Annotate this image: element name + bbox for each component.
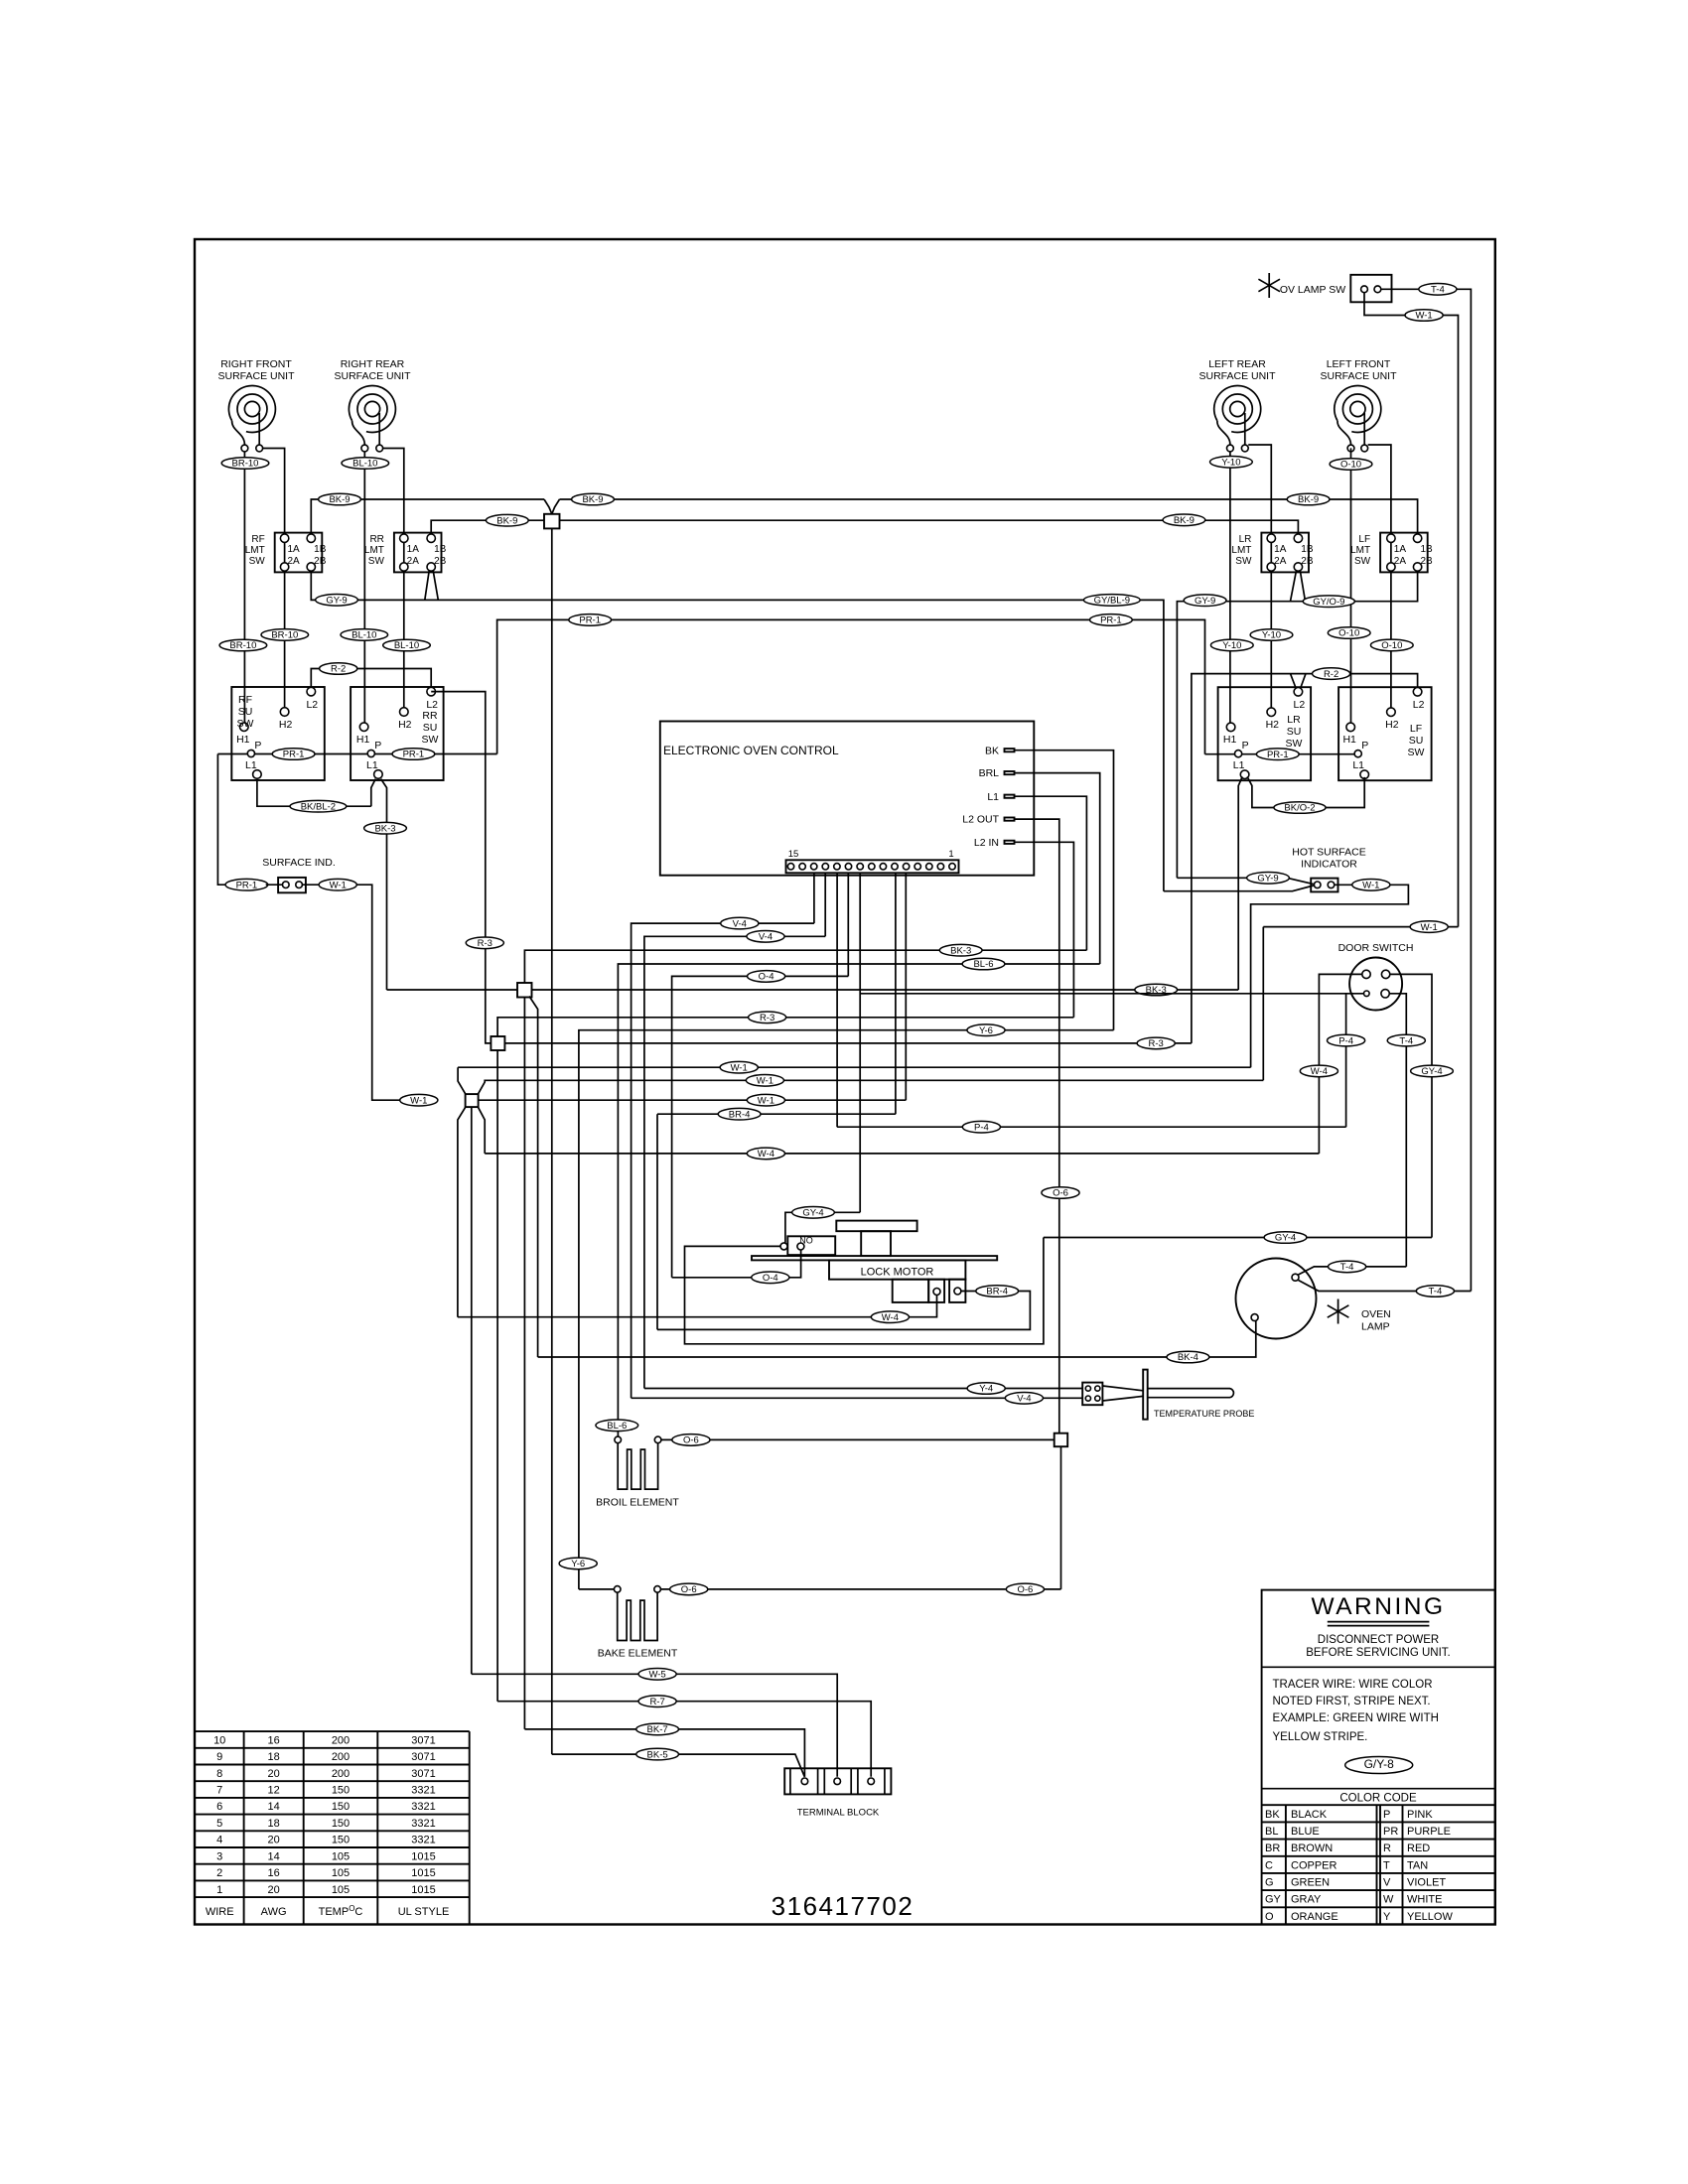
oval label W-1 xyxy=(1410,921,1448,933)
svg-text:TERMINAL BLOCK: TERMINAL BLOCK xyxy=(797,1808,880,1819)
svg-text:3321: 3321 xyxy=(411,1818,435,1830)
wire V-4 line to probe connector xyxy=(632,1397,1083,1399)
wire BR-10 right: RF coil right terminal to RF LMT 1A, 2A down to H2 xyxy=(263,449,285,708)
oven lamp terminal lower xyxy=(1251,1314,1258,1321)
svg-text:2B: 2B xyxy=(434,556,447,567)
svg-text:R-3: R-3 xyxy=(478,938,492,949)
svg-text:LOCK MOTOR: LOCK MOTOR xyxy=(861,1267,934,1279)
svg-text:16: 16 xyxy=(267,1867,279,1879)
svg-text:LMT: LMT xyxy=(1231,545,1251,556)
wire from EOC L2 IN stub to R-3 line xyxy=(1015,842,1074,1018)
EOC 15-pin connector strip xyxy=(786,860,959,873)
svg-text:R-3: R-3 xyxy=(1149,1038,1164,1049)
svg-text:3071: 3071 xyxy=(411,1751,435,1763)
svg-text:LF: LF xyxy=(1410,723,1422,735)
color code table grid xyxy=(1262,1804,1495,1806)
svg-text:BL: BL xyxy=(1265,1826,1278,1838)
oval label BK-9 xyxy=(1163,514,1205,526)
svg-text:RIGHT REAR: RIGHT REAR xyxy=(341,358,405,370)
svg-text:3071: 3071 xyxy=(411,1768,435,1780)
svg-text:Y-6: Y-6 xyxy=(571,1559,585,1570)
svg-text:LMT: LMT xyxy=(245,545,265,556)
EOC terminal stub BRL xyxy=(1005,771,1015,774)
svg-text:SW: SW xyxy=(368,556,385,567)
svg-text:BL-10: BL-10 xyxy=(352,459,377,470)
svg-text:150: 150 xyxy=(332,1818,350,1830)
EOC terminal stub BK xyxy=(1005,749,1015,751)
svg-text:BRL: BRL xyxy=(979,767,1000,779)
RF LMT SW pins 1A 1B 2A 2B xyxy=(280,534,288,542)
oval label BK-3 xyxy=(1135,984,1178,996)
wire P-4 line: pin11 across to door switch drop xyxy=(837,1126,1346,1128)
svg-text:3: 3 xyxy=(216,1850,222,1862)
svg-text:OVEN: OVEN xyxy=(1361,1308,1391,1320)
svg-text:BK-5: BK-5 xyxy=(647,1749,668,1760)
svg-text:H2: H2 xyxy=(1266,719,1280,731)
wire V-4 line 1: pin13 to left drop xyxy=(632,923,814,1398)
svg-text:1B: 1B xyxy=(1301,544,1314,555)
LR LMT SW pins 1A 1B 2A 2B xyxy=(1267,534,1275,542)
oval label BR-4 xyxy=(976,1286,1019,1297)
svg-text:EXAMPLE: GREEN WIRE WITH: EXAMPLE: GREEN WIRE WITH xyxy=(1273,1712,1439,1724)
LR SU SW pin L1 xyxy=(1240,770,1249,779)
lock motor cam stem xyxy=(861,1231,891,1256)
oval label W-1 xyxy=(400,1094,438,1106)
svg-text:BR: BR xyxy=(1265,1843,1280,1854)
wire W-4 door switch UL leg xyxy=(1319,974,1362,1154)
oven lamp terminal upper xyxy=(1292,1274,1299,1281)
wire BK-7: J1 trunk across and down to terminal 1 xyxy=(524,1729,804,1777)
oval label BL-10 xyxy=(341,629,388,641)
LF LMT SW limit switch box xyxy=(1380,533,1428,573)
svg-text:L2 IN: L2 IN xyxy=(974,837,999,849)
temperature probe stem xyxy=(1148,1389,1234,1398)
wire from EOC BRL stub to BL-6 line xyxy=(1015,773,1100,964)
oval label O-6 xyxy=(672,1434,710,1446)
oval label O-6 xyxy=(1006,1583,1044,1595)
svg-text:TEMPERATURE PROBE: TEMPERATURE PROBE xyxy=(1154,1409,1254,1419)
left front surface unit coil element xyxy=(1335,385,1381,445)
svg-text:Y-6: Y-6 xyxy=(979,1025,993,1036)
svg-text:GY-4: GY-4 xyxy=(1421,1066,1442,1077)
svg-text:HOT SURFACE: HOT SURFACE xyxy=(1292,847,1365,859)
oval label BK/O-2 xyxy=(1274,802,1326,814)
LR SU SW pin P xyxy=(1235,751,1242,757)
LF SU SW pin H2 xyxy=(1387,708,1396,717)
svg-text:2B: 2B xyxy=(1301,556,1314,567)
svg-text:GREEN: GREEN xyxy=(1291,1877,1330,1889)
oval label T-4 xyxy=(1419,284,1457,296)
oval label Y-6 xyxy=(967,1024,1005,1036)
EOC terminal stub L1 xyxy=(1005,795,1015,798)
wire V-4 line 2: pin12 to left drop xyxy=(644,936,825,1388)
door switch pin LL xyxy=(1364,991,1370,997)
wire PR-1 drop from P-line to surface indicator xyxy=(217,754,227,886)
lock motor body box xyxy=(829,1260,965,1279)
svg-text:16: 16 xyxy=(267,1734,279,1746)
svg-text:P: P xyxy=(1361,740,1368,751)
svg-text:BK-9: BK-9 xyxy=(1174,515,1195,526)
svg-text:R-2: R-2 xyxy=(331,664,346,675)
svg-text:W: W xyxy=(1383,1894,1394,1906)
wire BK-5 trunk: junction box down to BK-5 run xyxy=(551,528,553,1754)
oval label W-1 xyxy=(720,1061,758,1073)
svg-text:BK/BL-2: BK/BL-2 xyxy=(301,801,336,812)
svg-text:TAN: TAN xyxy=(1407,1859,1428,1871)
svg-text:1015: 1015 xyxy=(411,1850,435,1862)
svg-text:1B: 1B xyxy=(1420,544,1433,555)
oval label PR-1 xyxy=(569,614,612,626)
svg-text:1A: 1A xyxy=(407,544,420,555)
oval label O-10 xyxy=(1330,459,1372,471)
svg-text:P: P xyxy=(1383,1809,1390,1821)
svg-text:1: 1 xyxy=(216,1884,222,1896)
svg-text:L1: L1 xyxy=(1352,759,1364,771)
oval label W-1 xyxy=(747,1094,784,1106)
svg-text:GY-9: GY-9 xyxy=(1195,596,1215,607)
wire drop from connector pin 5 xyxy=(905,873,907,1100)
svg-text:V: V xyxy=(1383,1877,1391,1889)
svg-text:8: 8 xyxy=(216,1768,222,1780)
svg-text:PR-1: PR-1 xyxy=(579,615,601,626)
svg-text:20: 20 xyxy=(267,1768,279,1780)
svg-text:R-2: R-2 xyxy=(1324,669,1338,680)
svg-text:BEFORE SERVICING UNIT.: BEFORE SERVICING UNIT. xyxy=(1306,1647,1450,1659)
oval label BK-3 xyxy=(939,944,982,956)
oval label BR-4 xyxy=(718,1108,761,1120)
lock motor NO switch box xyxy=(787,1236,835,1255)
svg-text:W-1: W-1 xyxy=(410,1095,427,1106)
wire BL-10 right: RR coil right terminal to RR LMT 1A, 2A down to H2 xyxy=(383,449,404,708)
oven lamp switch terminals xyxy=(1361,286,1368,293)
junction square J1 xyxy=(517,983,532,998)
temperature probe taper xyxy=(1102,1386,1143,1401)
svg-text:3321: 3321 xyxy=(411,1835,435,1846)
svg-text:PR: PR xyxy=(1383,1826,1398,1838)
svg-text:G: G xyxy=(1265,1877,1274,1889)
svg-text:W-4: W-4 xyxy=(882,1312,899,1323)
svg-text:BK-7: BK-7 xyxy=(647,1724,668,1735)
svg-text:T-4: T-4 xyxy=(1399,1035,1413,1046)
svg-text:BR-4: BR-4 xyxy=(729,1109,751,1120)
svg-text:O-10: O-10 xyxy=(1338,628,1359,639)
svg-text:1B: 1B xyxy=(314,544,327,555)
svg-text:WARNING: WARNING xyxy=(1312,1593,1446,1620)
svg-text:LEFT REAR: LEFT REAR xyxy=(1208,358,1266,370)
svg-text:15: 15 xyxy=(788,849,799,860)
RF SU SW pin P xyxy=(247,750,254,756)
svg-text:1015: 1015 xyxy=(411,1884,435,1896)
page border frame xyxy=(195,239,1495,1925)
svg-text:DISCONNECT POWER: DISCONNECT POWER xyxy=(1318,1634,1439,1646)
svg-text:O-10: O-10 xyxy=(1381,640,1402,651)
wire T-4 from lamp switch to right edge xyxy=(1381,289,1472,1291)
LR SU SW pin L2 xyxy=(1294,688,1303,697)
wire Y-10 left: LR coil left terminal down to LR SU SW H1 xyxy=(1229,452,1231,723)
LR LMT SW limit switch box xyxy=(1261,533,1309,573)
svg-text:ORANGE: ORANGE xyxy=(1291,1911,1338,1923)
svg-text:PURPLE: PURPLE xyxy=(1407,1826,1451,1838)
svg-text:3321: 3321 xyxy=(411,1785,435,1797)
LF SU SW pin L2 xyxy=(1413,688,1422,697)
wire R-3 vertical: RR SU L2 right and down through R-3 oval to J2 left xyxy=(431,692,491,1043)
oval label GY/O-9 xyxy=(1303,596,1354,608)
oval label W-1 xyxy=(1352,880,1390,891)
svg-text:WHITE: WHITE xyxy=(1407,1894,1442,1906)
svg-text:YELLOW: YELLOW xyxy=(1407,1911,1453,1923)
wire BR-4 lock motor return xyxy=(657,1292,1030,1330)
svg-text:VIOLET: VIOLET xyxy=(1407,1877,1446,1889)
svg-text:W-1: W-1 xyxy=(758,1095,774,1106)
svg-text:1: 1 xyxy=(948,849,953,860)
oval label R-3 xyxy=(1137,1037,1175,1049)
svg-text:SU: SU xyxy=(423,722,438,734)
svg-text:2B: 2B xyxy=(314,556,327,567)
svg-text:SW: SW xyxy=(1354,556,1371,567)
wire GY-4 bottom run to door-switch UR drop xyxy=(1044,1237,1432,1239)
LF SU SW surface switch box xyxy=(1338,687,1432,780)
oval label PR-1 xyxy=(272,749,315,760)
RR SU SW pin H2 xyxy=(400,708,409,717)
RR SU SW pin L2 xyxy=(427,687,436,696)
wire O-6 trunk below junction xyxy=(1060,1446,1062,1589)
svg-text:YELLOW STRIPE.: YELLOW STRIPE. xyxy=(1273,1731,1368,1743)
svg-text:LF: LF xyxy=(1358,534,1370,545)
oval label O-4 xyxy=(748,971,785,983)
broil element heating coil xyxy=(618,1443,657,1489)
svg-text:BL-6: BL-6 xyxy=(607,1421,627,1432)
oval label V-4 xyxy=(1005,1393,1043,1405)
svg-text:SU: SU xyxy=(1287,726,1302,738)
svg-text:2A: 2A xyxy=(1394,556,1407,567)
left rear surface unit coil element xyxy=(1214,385,1261,445)
wire T-4 upper: lamp terminal diagonal to door-switch T-4 drop xyxy=(1298,1267,1406,1275)
svg-text:T-4: T-4 xyxy=(1431,285,1445,296)
svg-text:DOOR SWITCH: DOOR SWITCH xyxy=(1338,942,1414,954)
LR SU SW pin H2 xyxy=(1267,708,1276,717)
oval label Y-10 xyxy=(1210,457,1253,469)
svg-text:GY-4: GY-4 xyxy=(802,1208,823,1219)
svg-text:SURFACE UNIT: SURFACE UNIT xyxy=(217,370,295,382)
svg-text:GRAY: GRAY xyxy=(1291,1894,1322,1906)
wire BL-6 line: EOC BRL drop across and down to broil element xyxy=(618,964,1099,1436)
right front surface unit coil element xyxy=(228,385,275,445)
wire R-3 line: EOC L2 IN drop across to J2 top feed xyxy=(497,1018,1073,1036)
oval label BR-10 xyxy=(219,639,267,651)
svg-text:O: O xyxy=(1265,1911,1274,1923)
wire O-4 lower line to NO contact xyxy=(672,1250,801,1278)
terminal block dividers xyxy=(790,1768,885,1794)
svg-text:T-4: T-4 xyxy=(1340,1262,1354,1273)
svg-text:BK-3: BK-3 xyxy=(950,945,971,956)
right rear surface unit coil element xyxy=(349,385,395,445)
svg-text:TRACER WIRE: WIRE COLOR: TRACER WIRE: WIRE COLOR xyxy=(1273,1679,1433,1691)
svg-text:H1: H1 xyxy=(1342,734,1356,746)
svg-text:18: 18 xyxy=(267,1751,279,1763)
svg-text:RIGHT FRONT: RIGHT FRONT xyxy=(220,358,292,370)
svg-text:7: 7 xyxy=(216,1785,222,1797)
surface indicator box xyxy=(278,878,306,892)
svg-text:SW: SW xyxy=(1286,738,1303,750)
svg-text:SURFACE UNIT: SURFACE UNIT xyxy=(1198,370,1276,382)
svg-text:SU: SU xyxy=(238,706,253,718)
svg-text:1A: 1A xyxy=(1394,544,1407,555)
svg-text:SW: SW xyxy=(249,556,266,567)
wire W-4 lock motor line xyxy=(458,1296,937,1317)
svg-text:W-1: W-1 xyxy=(330,880,347,890)
LF SU SW pin P xyxy=(1354,751,1361,757)
svg-text:GY/BL-9: GY/BL-9 xyxy=(1094,596,1130,607)
door switch pin UL xyxy=(1362,970,1370,978)
svg-text:COPPER: COPPER xyxy=(1291,1859,1337,1871)
svg-text:GY-9: GY-9 xyxy=(326,596,347,607)
svg-text:W-5: W-5 xyxy=(648,1670,665,1681)
oval label GY-4 xyxy=(1411,1065,1454,1077)
svg-text:BROIL ELEMENT: BROIL ELEMENT xyxy=(596,1497,679,1509)
svg-text:200: 200 xyxy=(332,1751,350,1763)
RR SU SW pin H1 xyxy=(359,723,368,732)
lock motor NO switch contacts xyxy=(780,1243,787,1250)
svg-text:Y-4: Y-4 xyxy=(979,1384,993,1395)
asterisk marker for oven lamp xyxy=(1328,1299,1349,1324)
wire R-2 left: RF SU L2 to RR SU L2 xyxy=(311,669,431,688)
LF LMT SW pins 1A 1B 2A 2B xyxy=(1387,534,1395,542)
oval label BK-7 xyxy=(636,1723,679,1735)
svg-text:BAKE ELEMENT: BAKE ELEMENT xyxy=(598,1648,678,1660)
svg-text:PR-1: PR-1 xyxy=(283,750,305,760)
junction square O-6 xyxy=(1055,1433,1068,1447)
oval label GY-4 xyxy=(1264,1232,1307,1244)
wire O-6 from bake element right to trunk xyxy=(660,1588,1060,1590)
oval label GY/BL-9 xyxy=(1083,595,1140,607)
wire T-4 lower: lamp terminal diagonal to right-edge T-4 vertical xyxy=(1299,1281,1472,1292)
oval label BL-6 xyxy=(596,1420,638,1432)
oval label R-7 xyxy=(638,1696,676,1707)
svg-text:105: 105 xyxy=(332,1850,350,1862)
oval label PR-1 xyxy=(1090,614,1133,626)
oval label V-4 xyxy=(721,917,759,929)
terminal block body xyxy=(784,1768,891,1794)
svg-text:BK/O-2: BK/O-2 xyxy=(1284,803,1315,814)
svg-text:LR: LR xyxy=(1239,534,1252,545)
oval label Y-6 xyxy=(559,1558,597,1570)
oval label GY-9 xyxy=(1184,595,1226,607)
EOC terminal stub L2 IN xyxy=(1005,841,1015,844)
oval label BK/BL-2 xyxy=(290,800,347,812)
wire BK-9 lower run: RR LMT 1B up and across junction box to LR LMT 1B xyxy=(431,520,1298,534)
EOC connector pin circles 15..1 xyxy=(787,864,793,870)
RF SU SW surface switch box xyxy=(231,687,324,780)
wire W-1 drop from right run down to W-1 mesh line 2 xyxy=(1262,927,1264,1081)
oval label BK-9 xyxy=(319,493,361,505)
svg-text:P: P xyxy=(1242,740,1249,751)
svg-text:G/Y-8: G/Y-8 xyxy=(1364,1757,1395,1771)
svg-text:AWG: AWG xyxy=(261,1906,287,1918)
oval label R-3 xyxy=(466,937,503,949)
oval label P-4 xyxy=(1328,1034,1365,1046)
oval label G/Y-8 example xyxy=(1345,1757,1413,1774)
lock motor terminal housing xyxy=(893,1280,929,1302)
oval label BK-3 xyxy=(364,822,407,834)
svg-text:P-4: P-4 xyxy=(1338,1035,1353,1046)
wire W-1 from lamp switch down and right xyxy=(1364,293,1459,927)
oval label GY-4 xyxy=(792,1207,835,1219)
svg-text:PR-1: PR-1 xyxy=(1267,750,1289,760)
svg-text:RF: RF xyxy=(251,534,264,545)
svg-text:V-4: V-4 xyxy=(759,932,773,943)
wire from EOC L1 stub to BK-3 line xyxy=(1015,796,1087,950)
oval label O-6 xyxy=(670,1583,708,1595)
wire R-2 right: down-leg to junction2, across to LF SU L2 xyxy=(1192,674,1418,1043)
svg-text:12: 12 xyxy=(267,1785,279,1797)
wire door switch LL line to pin9 drop xyxy=(860,993,1363,995)
svg-text:RED: RED xyxy=(1407,1843,1430,1854)
wire BK-3 junction-1 line: RR L1 drop across through J1 to LR L1 drop xyxy=(387,989,1239,991)
svg-text:O-4: O-4 xyxy=(763,1273,778,1284)
oval label T-4 xyxy=(1329,1261,1366,1273)
wire R-3 junction-2 line: J2 right across to R-2 up-leg xyxy=(504,1042,1192,1044)
svg-text:O-6: O-6 xyxy=(683,1435,699,1446)
svg-text:5: 5 xyxy=(216,1818,222,1830)
svg-text:14: 14 xyxy=(267,1801,279,1813)
svg-text:L1: L1 xyxy=(1233,759,1245,771)
svg-text:H2: H2 xyxy=(1385,719,1399,731)
svg-text:LMT: LMT xyxy=(364,545,384,556)
left front surface unit terminals xyxy=(1347,445,1354,452)
svg-text:O-6: O-6 xyxy=(681,1584,697,1595)
wire W-1 from surface indicator down to X junction run xyxy=(302,885,399,1100)
svg-text:PINK: PINK xyxy=(1407,1809,1433,1821)
svg-text:R: R xyxy=(1383,1843,1391,1854)
svg-text:105: 105 xyxy=(332,1884,350,1896)
svg-text:BR-10: BR-10 xyxy=(229,640,256,651)
bake element heating coil xyxy=(618,1592,657,1640)
svg-text:L2 OUT: L2 OUT xyxy=(962,814,999,826)
oval label W-1 xyxy=(319,879,356,890)
door switch pin UR xyxy=(1381,970,1389,978)
svg-text:1B: 1B xyxy=(434,544,447,555)
temperature probe connector box xyxy=(1082,1383,1102,1406)
wire T-4 door switch LR leg down to lamp line xyxy=(1389,994,1407,1267)
svg-text:GY-9: GY-9 xyxy=(1257,874,1278,885)
wire BL-10 left: RR coil left terminal down to RR SU SW H1 xyxy=(363,452,365,723)
RR SU SW surface switch box xyxy=(351,687,444,780)
RR SU SW pin L1 xyxy=(374,770,383,779)
svg-text:O-6: O-6 xyxy=(1053,1188,1068,1199)
svg-text:C: C xyxy=(1265,1859,1273,1871)
svg-text:SURFACE UNIT: SURFACE UNIT xyxy=(334,370,411,382)
svg-text:NOTED FIRST, STRIPE NEXT.: NOTED FIRST, STRIPE NEXT. xyxy=(1273,1696,1431,1707)
svg-text:W-4: W-4 xyxy=(1311,1066,1328,1077)
oval label R-2 xyxy=(320,663,357,675)
svg-text:ELECTRONIC OVEN CONTROL: ELECTRONIC OVEN CONTROL xyxy=(663,744,839,757)
svg-text:L2: L2 xyxy=(1413,699,1425,711)
svg-text:P-4: P-4 xyxy=(974,1122,989,1133)
svg-text:BLUE: BLUE xyxy=(1291,1826,1320,1838)
svg-text:T: T xyxy=(1383,1859,1390,1871)
oval label BK-5 xyxy=(636,1748,679,1760)
wire BR-4 line: corner down-leg across to pin6 xyxy=(657,1113,896,1115)
wire W-4 line: X drop across to door switch drop xyxy=(485,1153,1319,1155)
svg-text:BK-4: BK-4 xyxy=(1178,1352,1198,1363)
wire R-7 drop from J2 bottom xyxy=(496,1050,498,1702)
wire W-4 motor drop from X lower-left diagonal xyxy=(458,1107,466,1317)
svg-text:1015: 1015 xyxy=(411,1867,435,1879)
svg-text:BK-9: BK-9 xyxy=(1298,494,1319,505)
svg-text:150: 150 xyxy=(332,1785,350,1797)
svg-text:V-4: V-4 xyxy=(1017,1394,1031,1405)
wire GY/BL-9 feed diagonal to hot surface indicator xyxy=(1164,886,1314,891)
